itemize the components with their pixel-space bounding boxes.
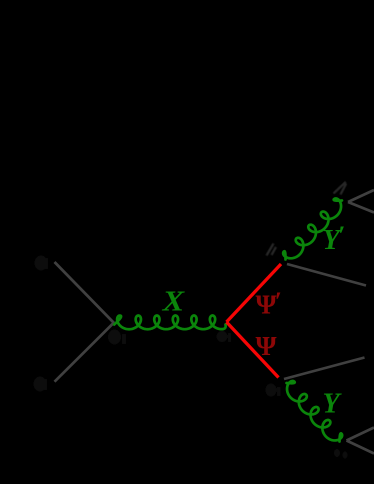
faint marks below V6 xyxy=(334,449,348,459)
svg-text:Ψ: Ψ xyxy=(256,289,277,319)
svg-text:′: ′ xyxy=(338,221,345,250)
svg-text:′: ′ xyxy=(275,287,282,316)
faint label (upper-left incoming particle) xyxy=(35,256,49,271)
outgoing fermion from V5 xyxy=(284,358,365,380)
photon line X xyxy=(114,315,225,329)
faint label near V2 xyxy=(217,331,232,342)
fermion pair from V6 (lower) xyxy=(347,441,374,454)
svg-text:X: X xyxy=(161,287,185,318)
svg-text:Ψ: Ψ xyxy=(256,331,277,361)
photon line Y-prime xyxy=(283,198,342,259)
outgoing fermion from V3 xyxy=(287,264,366,286)
photon line Y xyxy=(287,381,343,442)
faint label (lower-left incoming particle) xyxy=(34,377,48,392)
faint marks above V4 xyxy=(334,182,347,195)
psi line (red, down-right) xyxy=(227,322,279,378)
psi-prime line (red, up-right) xyxy=(227,264,282,322)
incoming fermion line (lower left) xyxy=(55,323,115,382)
fermion pair from V4 (upper) xyxy=(348,190,374,202)
faint marks near V3 xyxy=(267,244,277,256)
faint label near V5 xyxy=(266,384,281,397)
fermion pair from V4 (lower) xyxy=(348,202,374,213)
svg-text:Y: Y xyxy=(323,388,343,419)
incoming fermion line (upper left) xyxy=(55,262,115,323)
faint label near V1 xyxy=(108,330,126,345)
fermion pair from V6 (upper) xyxy=(347,428,374,441)
